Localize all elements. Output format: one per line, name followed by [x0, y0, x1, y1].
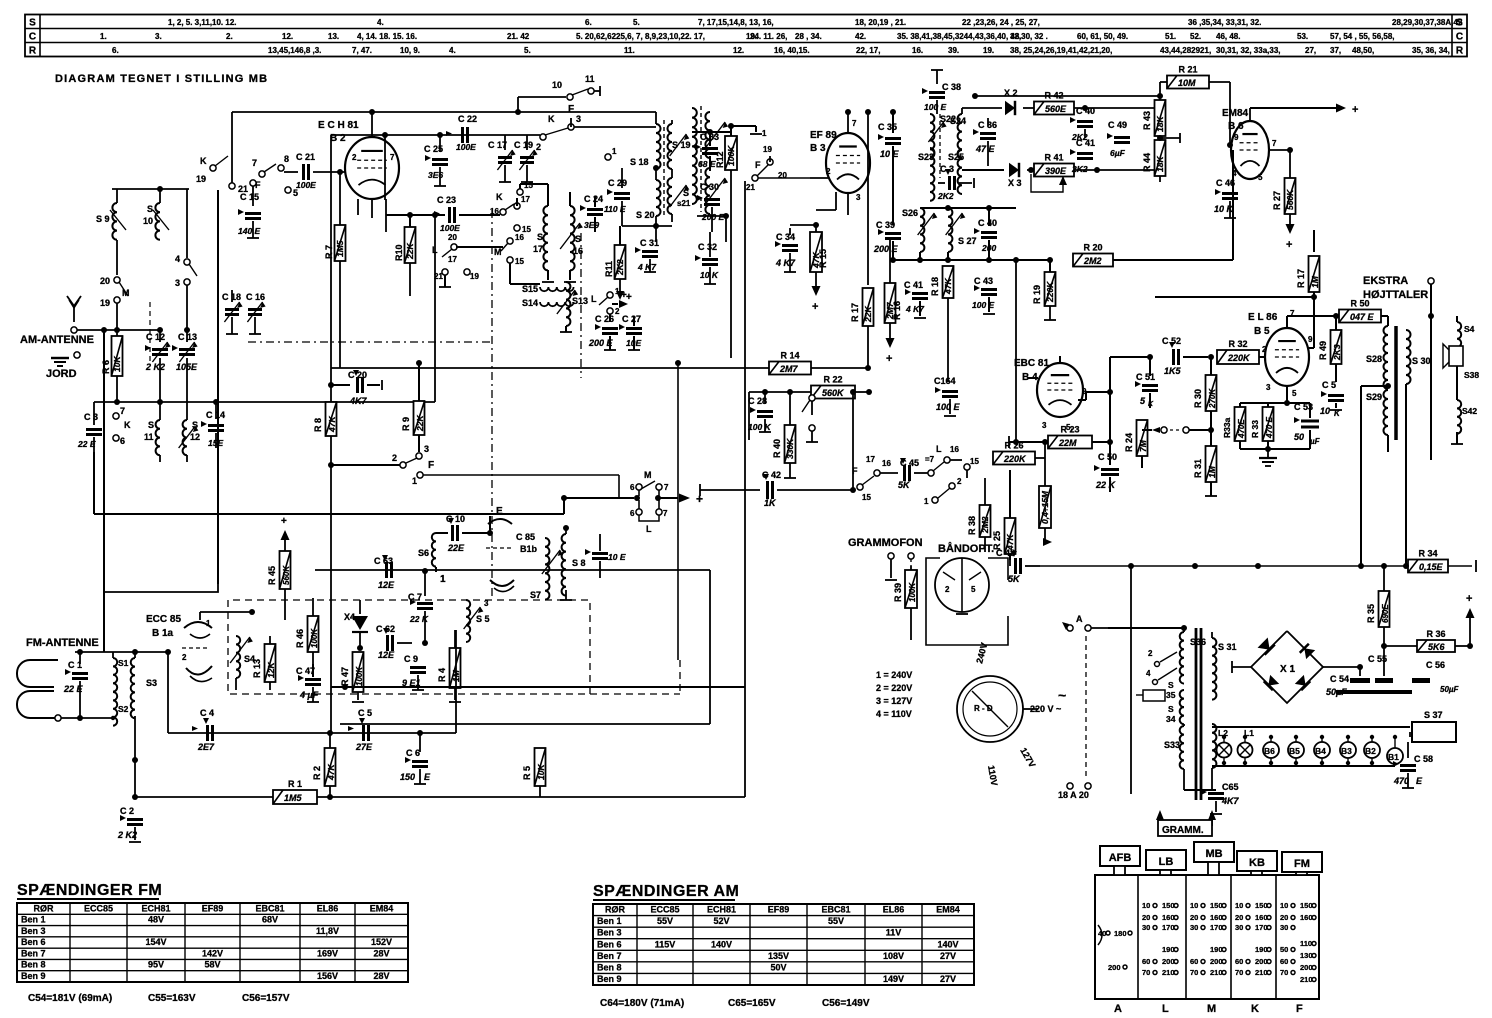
switch L mid-left	[630, 500, 668, 534]
svg-text:210: 210	[1300, 975, 1313, 984]
svg-text:R 1: R 1	[288, 779, 302, 789]
svg-text:3: 3	[1266, 383, 1271, 392]
wire x218 jog	[104, 584, 218, 652]
svg-text:36 ,35,34, 33,31, 32.: 36 ,35,34, 33,31, 32.	[1188, 18, 1261, 27]
AM antenna symbol	[67, 296, 81, 322]
capacitor C49	[1107, 108, 1130, 170]
svg-text:0,15E: 0,15E	[1419, 562, 1444, 572]
resistor R38 2M2	[967, 478, 991, 552]
resistor R50	[1298, 299, 1388, 323]
wire R22 line	[749, 368, 872, 399]
primary taps switch	[1146, 649, 1184, 726]
svg-text:1K: 1K	[764, 498, 777, 508]
svg-text:60, 61, 50, 49.: 60, 61, 50, 49.	[1077, 32, 1128, 41]
svg-text:+: +	[1352, 104, 1358, 116]
svg-text:11,8V: 11,8V	[316, 926, 339, 936]
svg-text:B2: B2	[1365, 746, 1376, 756]
capacitor C42	[700, 470, 856, 508]
coil S17	[533, 200, 554, 282]
svg-text:L: L	[936, 444, 942, 454]
svg-text:55V: 55V	[657, 916, 673, 926]
svg-text:C 12: C 12	[146, 332, 165, 342]
svg-text:C 2: C 2	[120, 806, 134, 816]
svg-text:Ben 1: Ben 1	[21, 915, 46, 925]
svg-text:170: 170	[1162, 923, 1175, 932]
label GRAMM box	[1158, 820, 1212, 836]
capacitor C54	[1326, 667, 1370, 697]
label BANDOPT	[938, 542, 994, 555]
tube B1b half	[0, 0, 1, 1]
svg-text:EF89: EF89	[768, 905, 790, 915]
svg-text:C64=180V (71mA): C64=180V (71mA)	[600, 998, 684, 1009]
wire x456	[455, 630, 457, 733]
svg-text:200: 200	[1300, 963, 1313, 972]
svg-text:Ben 9: Ben 9	[21, 971, 46, 981]
capacitor C36	[973, 118, 997, 166]
svg-text:4 = 110V: 4 = 110V	[876, 709, 912, 719]
svg-text:38, 25,24,26,19,41,42,21,20,: 38, 25,24,26,19,41,42,21,20,	[1010, 46, 1112, 55]
bridge left lead	[1232, 661, 1251, 673]
coil S24	[950, 108, 966, 158]
svg-text:C 18: C 18	[222, 292, 241, 302]
dash-dot osc box top	[248, 341, 492, 343]
heater B4	[1314, 735, 1330, 765]
svg-text:390E: 390E	[1045, 166, 1067, 176]
svg-text:100 E: 100 E	[972, 300, 995, 310]
svg-text:C 19: C 19	[514, 140, 533, 150]
lamp L1	[1238, 728, 1255, 765]
capacitor C35	[878, 109, 901, 225]
capacitor C31	[635, 226, 659, 272]
svg-text:7M: 7M	[1138, 439, 1148, 452]
svg-text:C 14: C 14	[206, 410, 225, 420]
svg-text:100K: 100K	[908, 582, 917, 602]
svg-text:1: 1	[206, 619, 211, 628]
capacitor C62	[376, 624, 412, 660]
svg-text:20: 20	[1235, 913, 1243, 922]
svg-text:22 E: 22 E	[77, 439, 96, 449]
svg-text:K: K	[124, 420, 131, 430]
svg-text:47K: 47K	[943, 278, 953, 295]
svg-text:S: S	[148, 420, 154, 430]
svg-text:1: 1	[924, 497, 929, 506]
svg-text:C 27: C 27	[622, 314, 641, 324]
svg-text:C 25: C 25	[424, 144, 443, 154]
svg-text:16.: 16.	[912, 46, 923, 55]
mains terminals top	[1062, 614, 1108, 631]
svg-text:s21: s21	[677, 199, 691, 208]
svg-text:200: 200	[1108, 963, 1121, 972]
capacitor C52	[1162, 336, 1214, 376]
svg-text:R 7: R 7	[324, 245, 334, 259]
svg-text:R 9: R 9	[401, 417, 411, 431]
svg-text:C55=163V: C55=163V	[148, 993, 196, 1004]
svg-text:X 1: X 1	[1280, 664, 1295, 675]
capacitor C21	[284, 152, 345, 190]
svg-text:1: 1	[762, 129, 767, 138]
svg-text:S 5: S 5	[476, 614, 490, 624]
svg-text:142V: 142V	[202, 948, 223, 958]
resistor R28v	[1039, 439, 1052, 546]
wire EF89 grid	[810, 163, 828, 178]
svg-text:S13: S13	[572, 296, 588, 306]
svg-text:156V: 156V	[317, 971, 338, 981]
svg-text:E C H 81: E C H 81	[318, 120, 359, 131]
capacitor C27	[619, 314, 642, 350]
svg-text:R 23: R 23	[1060, 425, 1079, 435]
svg-text:R 22: R 22	[823, 375, 842, 385]
svg-text:270K: 270K	[1208, 388, 1217, 409]
svg-text:100 K: 100 K	[748, 422, 772, 432]
svg-text:2E7: 2E7	[197, 742, 215, 752]
wire EF89 cathode join	[790, 210, 848, 228]
svg-text:EL86: EL86	[317, 903, 339, 913]
svg-text:B3: B3	[1341, 746, 1352, 756]
svg-text:S 31: S 31	[1218, 642, 1237, 652]
svg-text:R 18: R 18	[930, 277, 940, 296]
svg-text:M: M	[494, 247, 502, 257]
svg-text:18K: 18K	[1155, 116, 1165, 132]
svg-text:7: 7	[663, 509, 668, 518]
svg-text:170: 170	[1255, 923, 1268, 932]
svg-text:3: 3	[484, 599, 489, 608]
switch F mid contacts	[852, 455, 898, 502]
svg-text:9: 9	[1234, 133, 1239, 142]
resistor R44	[1142, 133, 1180, 182]
svg-text:2: 2	[615, 307, 620, 316]
svg-text:10: 10	[552, 80, 562, 90]
svg-text:2: 2	[826, 167, 831, 176]
capacitor C38	[922, 70, 961, 114]
svg-text:152V: 152V	[371, 937, 392, 947]
svg-text:R: R	[1456, 46, 1464, 57]
svg-text:3: 3	[424, 444, 429, 454]
svg-text:42.: 42.	[855, 32, 866, 41]
resistor R19	[1032, 260, 1056, 320]
svg-text:+: +	[281, 516, 287, 527]
svg-text:3E6: 3E6	[428, 170, 443, 180]
wire FM feed top	[75, 649, 168, 655]
svg-text:10: 10	[1235, 901, 1243, 910]
wire y297	[1155, 296, 1314, 298]
wire x745 long	[744, 181, 746, 797]
svg-text:C 6: C 6	[406, 748, 420, 758]
svg-text:560K: 560K	[822, 388, 845, 398]
svg-text:50: 50	[1294, 432, 1304, 442]
wire bottom bus y687	[331, 684, 745, 690]
svg-text:EL86: EL86	[883, 905, 905, 915]
svg-text:R12: R12	[715, 151, 725, 168]
button FM	[1282, 852, 1322, 875]
svg-text:L: L	[646, 524, 652, 534]
svg-text:18, 20,19 , 21.: 18, 20,19 , 21.	[855, 18, 906, 27]
capacitor C40b	[974, 208, 997, 260]
svg-text:46, 48.: 46, 48.	[1216, 32, 1240, 41]
svg-text:C65: C65	[1222, 782, 1239, 792]
wire x749 riser	[748, 392, 750, 440]
svg-text:C 5: C 5	[1322, 380, 1336, 390]
wire EM84 right	[1290, 149, 1348, 151]
wire osc top	[0, 0, 1, 1]
resistor R35	[1366, 563, 1390, 676]
svg-text:154V: 154V	[145, 937, 166, 947]
svg-text:5: 5	[1258, 173, 1263, 182]
resistor R47	[340, 648, 364, 702]
resistor R42	[1034, 91, 1163, 115]
svg-text:43,44,282921,: 43,44,282921,	[1160, 46, 1211, 55]
label JORD	[46, 368, 77, 380]
transformer primary S36	[1108, 628, 1206, 690]
svg-text:6.: 6.	[112, 46, 119, 55]
wire det top	[962, 107, 1002, 109]
capacitor C23	[386, 195, 500, 233]
button AFB	[1100, 846, 1140, 875]
resistor R38	[966, 478, 968, 480]
svg-text:140V: 140V	[711, 939, 732, 949]
capacitor C16 trim	[246, 290, 266, 334]
svg-text:3: 3	[1042, 421, 1047, 430]
svg-text:S: S	[1168, 680, 1174, 690]
svg-text:S2: S2	[118, 704, 129, 714]
wire x710 drop	[709, 570, 711, 724]
svg-text:30,31, 32, 33a,33,: 30,31, 32, 33a,33,	[1216, 46, 1281, 55]
svg-text:22E: 22E	[447, 543, 465, 553]
wire y498	[564, 495, 661, 501]
svg-text:4, 14. 18. 15. 16.: 4, 14. 18. 15. 16.	[357, 32, 417, 41]
svg-text:C 23: C 23	[437, 195, 456, 205]
wire transformer tap drop	[1358, 386, 1364, 569]
svg-text:50: 50	[1280, 945, 1288, 954]
svg-text:C 85: C 85	[516, 532, 535, 542]
wire y733	[168, 730, 456, 736]
svg-text:C 16: C 16	[246, 292, 265, 302]
loop X3	[1031, 174, 1067, 192]
IF transformer S22	[918, 108, 956, 201]
switch L2 contacts	[591, 287, 628, 316]
coil S11	[144, 402, 160, 462]
svg-text:E L 86: E L 86	[1248, 312, 1278, 323]
tube EL86 B5	[1248, 309, 1314, 400]
chassis bar	[1336, 690, 1412, 700]
resistor R27	[1269, 147, 1296, 251]
svg-text:HØJTTALER: HØJTTALER	[1363, 289, 1428, 301]
title text	[55, 73, 268, 85]
svg-text:4 µF: 4 µF	[299, 690, 319, 700]
contact 15 top	[517, 181, 548, 200]
svg-text:10: 10	[1280, 901, 1288, 910]
svg-text:R 32: R 32	[1228, 339, 1247, 349]
svg-text:Ben 3: Ben 3	[597, 928, 622, 938]
wire det bottom	[962, 169, 1004, 171]
svg-text:S42: S42	[1462, 406, 1477, 416]
svg-text:S: S	[1168, 704, 1174, 714]
svg-text:S 18: S 18	[630, 157, 649, 167]
wire EF89 top	[775, 98, 848, 112]
capacitor C51	[1135, 354, 1158, 408]
svg-text:2: 2	[392, 453, 397, 463]
svg-text:R11: R11	[604, 261, 614, 277]
svg-text:S: S	[147, 204, 153, 214]
svg-text:30: 30	[1142, 923, 1150, 932]
svg-text:24. 11. 26,: 24. 11. 26,	[750, 32, 787, 41]
capacitor C4	[192, 708, 215, 752]
svg-text:C 32: C 32	[698, 242, 717, 252]
svg-text:39.: 39.	[948, 46, 959, 55]
svg-text:K: K	[1251, 1003, 1259, 1015]
svg-text:160: 160	[1210, 913, 1223, 922]
svg-text:47 E: 47 E	[975, 144, 996, 154]
svg-text:LB: LB	[1159, 856, 1174, 868]
svg-text:108V: 108V	[883, 951, 904, 961]
svg-text:220 V ~: 220 V ~	[1030, 704, 1061, 714]
svg-text:C 56: C 56	[1426, 660, 1445, 670]
fuse box	[1136, 690, 1165, 701]
coils S15 S14	[510, 284, 574, 308]
svg-text:1K5: 1K5	[1164, 366, 1182, 376]
label S31	[1218, 642, 1237, 652]
svg-text:EM84: EM84	[936, 905, 960, 915]
svg-text:16: 16	[950, 445, 959, 454]
svg-text:B 5: B 5	[1254, 326, 1270, 337]
svg-text:S: S	[575, 234, 581, 244]
svg-text:S: S	[683, 188, 689, 198]
FM dipole	[17, 660, 61, 721]
svg-text:Ben 7: Ben 7	[21, 948, 46, 958]
svg-text:19: 19	[100, 298, 110, 308]
switch M mixer contacts	[494, 233, 524, 284]
capacitor C46	[1214, 145, 1238, 218]
svg-text:110: 110	[1300, 939, 1312, 948]
svg-text:4 K7: 4 K7	[775, 258, 796, 268]
IF S19 big winding	[692, 106, 728, 214]
svg-text:160: 160	[1255, 913, 1268, 922]
lamp L2	[1217, 728, 1232, 765]
svg-text:AFB: AFB	[1109, 852, 1132, 864]
svg-text:F: F	[568, 104, 574, 115]
svg-text:27E: 27E	[355, 742, 373, 752]
svg-text:3: 3	[576, 114, 581, 124]
svg-text:19.: 19.	[983, 46, 994, 55]
svg-text:5K: 5K	[898, 480, 911, 490]
svg-text:KB: KB	[1249, 857, 1265, 869]
svg-text:2K3: 2K3	[1332, 344, 1342, 361]
svg-text:2K2: 2K2	[615, 259, 625, 276]
svg-text:15: 15	[862, 493, 871, 502]
wire bridge top	[1286, 618, 1288, 631]
svg-text:B6: B6	[1264, 746, 1275, 756]
svg-text:15: 15	[515, 257, 524, 266]
capacitor C20	[328, 370, 382, 406]
svg-text:2: 2	[1148, 649, 1153, 658]
svg-text:ECH81: ECH81	[141, 903, 170, 913]
keyboard col A contacts	[1098, 925, 1132, 972]
svg-text:149V: 149V	[883, 974, 904, 984]
wire R14 line	[331, 351, 868, 375]
capacitor C34	[775, 228, 798, 272]
svg-text:EBC81: EBC81	[255, 903, 284, 913]
svg-text:C 15: C 15	[240, 192, 259, 202]
C row terminal numbers	[100, 32, 1395, 41]
label FM-ANTENNE	[26, 637, 99, 649]
svg-text:100K: 100K	[355, 666, 364, 686]
svg-text:35, 36, 34,: 35, 36, 34,	[1412, 46, 1450, 55]
coil S16 tuned	[560, 192, 583, 282]
svg-text:F: F	[428, 460, 434, 471]
svg-text:3E9: 3E9	[584, 220, 599, 230]
svg-text:C56=157V: C56=157V	[242, 993, 290, 1004]
svg-text:10 E: 10 E	[608, 552, 626, 562]
svg-text:C 38: C 38	[942, 82, 961, 92]
svg-text:SPÆNDINGER AM: SPÆNDINGER AM	[593, 883, 739, 900]
svg-text:K: K	[200, 156, 207, 166]
svg-text:200: 200	[1162, 957, 1175, 966]
svg-text:C54=181V (69mA): C54=181V (69mA)	[28, 993, 112, 1004]
switch M mid-left	[630, 470, 669, 496]
svg-text:6µF: 6µF	[1110, 148, 1126, 158]
svg-text:10: 10	[1320, 406, 1330, 416]
capacitor C41b	[904, 260, 928, 318]
svg-text:4: 4	[175, 254, 180, 264]
wire input top bus	[112, 186, 189, 192]
svg-text:R 41: R 41	[1044, 153, 1063, 163]
svg-text:7, 17,15,14,8, 13, 16,: 7, 17,15,14,8, 13, 16,	[698, 18, 774, 27]
R row terminal numbers	[112, 46, 1450, 55]
svg-text:S 8: S 8	[572, 558, 586, 568]
svg-text:S26: S26	[902, 208, 918, 218]
svg-text:27,: 27,	[1305, 46, 1316, 55]
heater B3	[1340, 735, 1356, 765]
capacitor C13	[172, 327, 198, 402]
svg-text:2M2: 2M2	[980, 516, 990, 534]
wire IF2 mid	[697, 170, 729, 242]
bandopt socket	[935, 558, 989, 614]
speaker coils S41 S42	[1443, 316, 1479, 444]
resistor R41	[1034, 153, 1160, 177]
svg-text:S3: S3	[146, 678, 157, 688]
svg-text:5.: 5.	[633, 18, 640, 27]
svg-text:+: +	[886, 353, 892, 365]
svg-text:6: 6	[120, 436, 125, 446]
capacitor C55	[1368, 654, 1393, 683]
svg-text:16: 16	[882, 459, 891, 468]
svg-text:17: 17	[448, 255, 457, 264]
svg-text:150: 150	[1300, 901, 1313, 910]
svg-text:S: S	[29, 18, 36, 29]
selector labels	[974, 642, 1061, 787]
svg-text:6: 6	[630, 509, 635, 518]
svg-text:7: 7	[852, 119, 857, 128]
svg-text:B5: B5	[1289, 746, 1300, 756]
capacitor C6	[400, 733, 431, 784]
svg-text:R 6: R 6	[101, 360, 111, 374]
svg-text:2 K2: 2 K2	[117, 830, 137, 840]
wire FM feed bottom	[61, 694, 113, 718]
svg-text:95V: 95V	[148, 960, 164, 970]
svg-text:4 K7: 4 K7	[905, 304, 925, 314]
svg-text:170: 170	[1210, 923, 1223, 932]
svg-text:7: 7	[120, 406, 125, 416]
svg-text:690E: 690E	[1381, 604, 1390, 623]
coil S25	[948, 150, 964, 194]
svg-text:1: 1	[412, 476, 417, 486]
coil S3	[131, 652, 157, 760]
svg-text:1.: 1.	[100, 32, 107, 41]
svg-text:18K: 18K	[1155, 156, 1165, 172]
svg-text:60: 60	[1280, 957, 1288, 966]
keyboard col L contacts	[1142, 901, 1178, 977]
svg-text:10: 10	[1190, 901, 1198, 910]
svg-text:17: 17	[866, 455, 875, 464]
